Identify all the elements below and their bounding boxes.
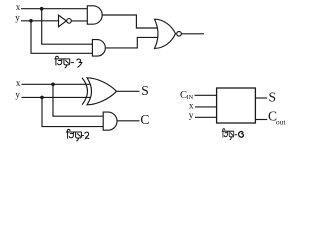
wire NOT output to AND1 — [71, 20, 88, 22]
AND gate G5 (carry) — [103, 112, 117, 130]
caption figure-3 (Bengali) — [222, 129, 244, 140]
svg-text:x: x — [189, 101, 194, 111]
svg-text:out: out — [276, 118, 287, 127]
wire AND3 output to C — [117, 120, 139, 122]
AND gate G1 (top) — [87, 6, 102, 24]
node y (input label, fig2) — [15, 90, 20, 100]
svg-text:x: x — [16, 78, 21, 88]
inverter U1 bubble — [67, 19, 72, 24]
full adder block U2 — [217, 88, 256, 123]
junction on y line (fig2) — [40, 96, 44, 100]
svg-text:S: S — [141, 83, 149, 98]
wire y tap down to AND2 lower input — [31, 21, 92, 54]
svg-text:y: y — [15, 90, 20, 100]
NOR gate G3 — [155, 19, 176, 48]
wire NOR output — [181, 33, 204, 35]
node S (sum output label, fig2) — [141, 83, 149, 98]
inverter U1 (NOT gate on y) — [59, 15, 67, 27]
wire XOR output to S — [117, 90, 140, 92]
wire y input to XOR (fig2) — [22, 96, 91, 98]
wire x input to XOR (fig2) — [22, 83, 91, 85]
node Cout (output label, fig3) — [268, 109, 286, 127]
wire AND2 output to NOR lower input — [105, 37, 158, 48]
caption figure-1 (Bengali) — [54, 56, 82, 68]
wire x tap down to AND2 upper input — [42, 9, 93, 45]
XOR gate G4 body — [87, 78, 117, 105]
svg-text:S: S — [269, 89, 277, 104]
junction on x line (fig2) — [51, 83, 55, 87]
wire x input (fig1) — [21, 8, 88, 10]
node x (input label, fig1) — [16, 2, 21, 12]
wire x input (fig3) — [195, 106, 217, 108]
node S (output label, fig3) — [269, 89, 277, 104]
junction on y line (fig1) — [29, 19, 33, 23]
wire y tap down to AND3 lower input — [42, 97, 103, 126]
node x (input label, fig2) — [16, 78, 21, 88]
wire y input to NOT gate (fig1) — [21, 20, 59, 22]
wire S output (fig3) — [255, 97, 267, 99]
wire x tap down to AND3 upper input — [53, 84, 103, 116]
wire Cout output (fig3) — [255, 119, 267, 121]
wire Cin input — [195, 94, 217, 96]
node Cin (label) — [180, 90, 194, 101]
node x (input label, fig3) — [189, 101, 194, 111]
wire AND1 output to NOR upper input — [102, 15, 158, 28]
caption figure-2 (Bengali) — [66, 129, 89, 141]
svg-text:x: x — [16, 2, 21, 12]
NOR gate bubble — [177, 32, 182, 37]
junction on x line (fig1) — [40, 7, 44, 11]
node C (carry output label, fig2) — [140, 112, 149, 127]
wire y input (fig3) — [195, 116, 217, 118]
AND gate G2 (lower) — [92, 40, 105, 57]
svg-text:C: C — [140, 112, 149, 127]
node y (input label, fig1) — [15, 12, 20, 22]
XOR gate G4 input arc — [82, 78, 88, 105]
node y (input label, fig3) — [189, 110, 194, 120]
svg-text:y: y — [15, 12, 20, 22]
svg-text:y: y — [189, 110, 194, 120]
